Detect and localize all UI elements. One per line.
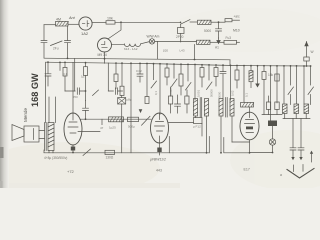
drop x167 resistor R11: [165, 64, 169, 85]
drop x48 capacitor C4: [45, 62, 51, 86]
stub: [101, 119, 103, 125]
junction dots bus: [47, 58, 311, 92]
tube V3 anode lead: [72, 62, 74, 113]
resistor R23: [275, 102, 279, 115]
IF2 winding right: [230, 99, 234, 117]
svg-text:M9 34: M9 34: [98, 53, 107, 57]
svg-text:0,1: 0,1: [154, 91, 158, 95]
drop x188 switch: [186, 64, 192, 90]
power choke winding 3: [304, 104, 309, 114]
tube V1 diode: [79, 17, 92, 30]
svg-text:β20: β20: [163, 49, 168, 53]
drop x104 wire: [104, 59, 106, 64]
wire V4 plate to IF1: [169, 122, 194, 124]
svg-text:µ F12: µ F12: [193, 125, 201, 129]
svg-text:1A2: 1A2: [81, 31, 89, 36]
svg-text:1µ: 1µ: [81, 75, 85, 79]
IF1 winding left: [194, 99, 198, 117]
capacitor C2: [65, 26, 71, 58]
wire: [272, 126, 274, 139]
drop x147 wire long: [145, 64, 149, 104]
lamp W/W: [149, 39, 154, 44]
resistor R1 10k: [106, 21, 115, 24]
bus lower: [46, 62, 311, 66]
tube V5 top pin: [249, 107, 251, 112]
wire lamp down: [272, 145, 274, 152]
svg-text:0,0005: 0,0005: [169, 87, 173, 96]
junction: [120, 21, 122, 23]
drop x131 wire: [130, 63, 132, 153]
mains cap 2 arrow: [299, 157, 302, 160]
wire: [92, 22, 106, 24]
scan edge dark mark: [0, 147, 4, 158]
speaker wires: [39, 131, 45, 139]
junction: [72, 152, 74, 154]
svg-text:L43: L43: [180, 49, 185, 53]
capacitor C6: [83, 101, 89, 120]
chassis wire bottom middle: [224, 138, 250, 153]
rectifier box: [268, 121, 277, 127]
drop x116 resistor R9: [114, 63, 118, 88]
wire: [232, 19, 240, 21]
wire V2 cathode: [104, 52, 106, 58]
svg-text:50000: 50000: [210, 89, 214, 97]
drop x304 coil feed: [303, 66, 305, 104]
svg-text:M10: M10: [233, 29, 240, 33]
wire: [43, 25, 45, 40]
loop wire 1 right: [201, 124, 203, 137]
resistor R21: [185, 90, 189, 113]
svg-text:Fu3: Fu3: [226, 36, 232, 40]
drop x264 resistor R17: [262, 66, 266, 115]
arrow up net: [310, 151, 313, 162]
chassis wire bottom left: [44, 152, 209, 154]
output transformer winding: [48, 123, 54, 151]
switch S4: [83, 149, 91, 156]
drop x209 switch: [207, 65, 213, 90]
loop wire 1: [169, 137, 209, 153]
drop x277 resistor small: [275, 66, 279, 103]
wire: [211, 21, 225, 23]
capacitor C3 5000: [216, 22, 222, 38]
svg-text:Mende: Mende: [23, 108, 28, 122]
power choke winding 1: [283, 104, 288, 114]
arrow grid: [139, 109, 143, 113]
svg-text:443: 443: [156, 169, 162, 173]
svg-text:A1: A1: [215, 46, 219, 50]
wire y131: [78, 131, 100, 133]
svg-text:0,02: 0,02: [136, 69, 142, 73]
svg-text:10k: 10k: [107, 17, 113, 21]
arrow A1 down: [217, 38, 220, 44]
wire to V2: [108, 22, 121, 38]
mains cap 2: [298, 119, 304, 158]
bus upper B+: [44, 58, 230, 60]
wire chassis left: [43, 150, 45, 153]
wire: [262, 114, 282, 116]
wire: [237, 41, 240, 43]
drop x70 resistor R7: [63, 62, 67, 91]
junction: [272, 152, 274, 154]
tube V3 output: [64, 113, 82, 145]
svg-text:0,02: 0,02: [231, 90, 235, 96]
dial lamp wire: [112, 41, 197, 58]
power choke winding 2: [294, 104, 299, 114]
svg-text:613 - 1A2: 613 - 1A2: [124, 47, 138, 51]
svg-text:4+8µ (350/550v): 4+8µ (350/550v): [44, 156, 67, 160]
svg-text:Ant: Ant: [68, 16, 76, 20]
tube V2 triode: [98, 38, 112, 52]
svg-text:168 GW: 168 GW: [30, 73, 40, 107]
drop x290 switch: [288, 66, 294, 105]
drop x140 capacitor: [137, 63, 143, 82]
bus end connector: [229, 60, 231, 66]
svg-text:47: 47: [100, 126, 104, 130]
speaker cone: [12, 125, 24, 141]
tube V5 cathode lead: [249, 140, 251, 153]
resistor R20: [105, 150, 115, 154]
svg-text:+a/c: +a/c: [234, 15, 241, 19]
drop x270 wire to box: [270, 66, 272, 122]
wire: [232, 141, 250, 143]
svg-text:5000: 5000: [218, 91, 222, 98]
resistor R18: [109, 117, 124, 122]
IF1 core: [200, 98, 202, 118]
resistor R5: [225, 19, 232, 22]
svg-text:0,1: 0,1: [245, 93, 249, 97]
IF2 core: [226, 98, 228, 118]
switch S1: [51, 41, 63, 46]
capacitor C5: [65, 88, 86, 95]
IF1 lead down: [206, 116, 208, 153]
junction: [85, 118, 87, 120]
drop x160 wire to V4: [159, 64, 161, 115]
drop x223 capacitor: [220, 65, 226, 100]
wire L2 down: [194, 45, 196, 59]
wire plate supply: [115, 21, 181, 23]
svg-text:4M: 4M: [56, 18, 61, 22]
svg-text:130Ω: 130Ω: [106, 156, 114, 160]
capacitor C1: [41, 41, 47, 58]
capacitor C5b: [108, 63, 122, 94]
paper background: [0, 0, 320, 188]
switch S3: [142, 116, 151, 125]
paper mottling: [0, 8, 320, 194]
mains stub 2: [302, 165, 304, 172]
drop x195 wire to IF1: [194, 65, 196, 101]
coupling box: [118, 98, 126, 153]
drop x244 wire to V5: [243, 66, 245, 102]
resistor R2: [124, 44, 140, 47]
capacitor C7: [175, 95, 181, 113]
mains stub 1: [293, 165, 295, 172]
junction: [218, 21, 220, 23]
drop x257 arrow: [256, 66, 259, 87]
drop x153 switch: [151, 64, 157, 88]
svg-text:W/W Am: W/W Am: [147, 35, 160, 39]
svg-text:+72: +72: [67, 169, 75, 174]
drop x216 resistor R14: [214, 65, 218, 86]
IF1 winding right: [205, 99, 209, 117]
drop x202 resistor R13: [200, 65, 204, 87]
wire field coil feed: [45, 62, 47, 122]
svg-text:2P20: 2P20: [176, 35, 184, 39]
junction dots chassis: [206, 152, 251, 154]
resistor R22: [267, 96, 271, 115]
drop x251 resistor hatch R16: [249, 66, 253, 88]
IF1 trimmer box: [194, 116, 203, 124]
tube V3 cathode: [71, 145, 75, 153]
svg-text:5000: 5000: [204, 29, 211, 33]
wire: [68, 23, 79, 25]
svg-text:0,001: 0,001: [197, 90, 201, 97]
drop x174 switch: [172, 64, 178, 86]
tube V4 cathode: [157, 143, 161, 155]
drop x230 wire: [230, 65, 232, 100]
svg-text:500µ: 500µ: [128, 125, 135, 129]
grid stopper components above V4: [169, 87, 173, 113]
switch S2: [180, 20, 190, 25]
svg-text:700: 700: [73, 95, 78, 99]
wire coil stubs: [285, 114, 307, 119]
output transformer core: [45, 123, 47, 151]
wire lamp left: [250, 152, 273, 154]
resistor R4 2P20: [178, 24, 185, 42]
wire heater chain: [283, 118, 310, 120]
transformer lead 2: [55, 97, 57, 123]
pilot lamp: [269, 139, 275, 145]
wire: [210, 41, 224, 43]
tube V5: [240, 112, 259, 140]
svg-text:W: W: [311, 50, 314, 54]
drop x237 resistor R15: [235, 66, 239, 89]
drop x122 resistor R10: [120, 63, 124, 97]
mains lead V: [287, 169, 314, 179]
wire: [44, 24, 56, 26]
wire drop x74.7: [74, 59, 76, 92]
oscillator coil above V5: [241, 103, 254, 108]
grid wire V3-V4: [80, 118, 151, 120]
antenna coil L1: [56, 22, 69, 27]
scan left edge shadow: [0, 0, 9, 188]
drop x310 switch: [308, 66, 314, 105]
svg-text:E17: E17: [244, 168, 250, 172]
svg-text:1µ25: 1µ25: [109, 126, 116, 130]
drop x181 resistor R12: [179, 64, 183, 95]
coil L3: [197, 40, 211, 44]
mains cap 1: [290, 119, 296, 158]
transformer lead: [48, 97, 50, 123]
resistor R6 Fu3: [224, 40, 237, 44]
svg-text:a: a: [280, 173, 282, 177]
scan edge dark mark 2: [0, 181, 3, 188]
svg-text:2Fu: 2Fu: [53, 47, 59, 51]
mains cap 1 arrow: [291, 157, 294, 160]
IF2 winding left: [219, 99, 223, 117]
drop x60 wire: [59, 62, 61, 70]
coil L2: [198, 20, 212, 24]
svg-text:µFBW11/2: µFBW11/2: [150, 158, 166, 162]
drop x296 coil feed: [296, 66, 298, 104]
wire: [190, 21, 197, 23]
IF2 leads down: [221, 116, 232, 153]
transformer bottom stubs: [49, 151, 53, 153]
speaker frame: [24, 126, 39, 142]
resistor R19: [128, 117, 139, 121]
drop x97 switch: [93, 90, 99, 96]
svg-text:0,1: 0,1: [63, 72, 68, 76]
tube V4: [151, 113, 169, 143]
antenna symbol right: [304, 41, 309, 66]
drop x87 resistor R8: [84, 63, 88, 101]
drop x284 coil feed: [283, 66, 285, 104]
